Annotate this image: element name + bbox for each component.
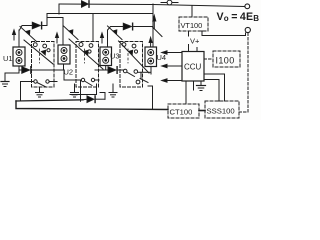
wire to rail B: [148, 86, 153, 110]
wire CT100-SSS100: [199, 110, 205, 112]
contact K1b: [43, 44, 47, 48]
relay box K2: [76, 42, 99, 88]
contact K2b: [89, 44, 93, 48]
battery B3: [100, 47, 112, 66]
svg-text:I100: I100: [216, 56, 235, 66]
wire CCU bottom 1: [185, 81, 187, 104]
contact row unit1: [21, 80, 58, 101]
terminal +output: [245, 4, 250, 9]
diode D3: [108, 23, 153, 30]
battery U3 wire: [107, 30, 109, 47]
wire VT100 to terminal: [202, 31, 246, 36]
current arrow A3: [101, 33, 104, 43]
diode D5: [19, 64, 64, 80]
current arrow A6: [149, 38, 152, 48]
wire B4 negative: [138, 67, 151, 79]
current arrow A2: [56, 33, 59, 43]
wire VT100 to CCU: [188, 31, 190, 36]
switch arm S1: [20, 27, 37, 42]
relay box K3: [120, 42, 143, 88]
wire B1 negative: [5, 66, 19, 81]
block SSS100: [205, 101, 239, 118]
contact row unit3: [123, 69, 137, 76]
control arrow 1: [162, 51, 182, 54]
diode D1: [82, 1, 90, 7]
diode D2: [20, 22, 48, 30]
current arrow A1: [13, 30, 16, 40]
contact K2a: [79, 43, 83, 47]
arm K3c: [119, 41, 150, 73]
contact K3a: [122, 43, 126, 47]
block CT100: [168, 104, 199, 118]
battery U1 wire: [18, 30, 20, 47]
svg-text:U4: U4: [157, 53, 167, 62]
battery B1: [13, 47, 25, 66]
wire riser x63: [62, 18, 64, 46]
arm K2c: [69, 39, 103, 69]
svg-text:V+: V+: [190, 37, 200, 46]
block I100: [213, 51, 240, 67]
contact row unit2: [65, 78, 99, 101]
linkage K3d: [127, 49, 129, 63]
contact K3b: [132, 44, 136, 48]
diode D6: [95, 66, 123, 74]
switch arm S4: [153, 27, 163, 37]
fuse F1: [161, 0, 178, 5]
relay box K1: [32, 42, 55, 88]
wire top bus2: [47, 13, 153, 15]
contact K1a: [33, 43, 37, 47]
wire drop x93: [92, 14, 94, 42]
wire CCU right 2: [204, 80, 219, 102]
linkage K2d: [84, 49, 86, 63]
svg-text:U1: U1: [3, 54, 13, 63]
ground G5: [197, 81, 206, 91]
wire sense dashed: [239, 33, 248, 112]
ground G4: [109, 84, 117, 97]
switch arm S3: [108, 26, 123, 40]
battery B4: [145, 47, 157, 67]
wire CCU right 1: [204, 74, 225, 101]
arm K1c: [24, 40, 53, 64]
wire bus1 drop: [58, 4, 60, 14]
wire y93: [70, 84, 97, 95]
svg-text:SSS100: SSS100: [207, 107, 235, 116]
wire link y17.5: [47, 17, 63, 19]
bottom rail A: [16, 100, 83, 101]
wire drop x47: [46, 14, 48, 26]
control arrow 2: [162, 64, 182, 67]
svg-text:U2: U2: [64, 68, 74, 77]
diode D4: [83, 93, 105, 103]
linkage K1d: [39, 49, 41, 63]
wire CCU to I100: [204, 58, 213, 60]
ground G1: [1, 82, 9, 87]
arm K4c: [140, 79, 148, 83]
svg-text:Vo = 4EB: Vo = 4EB: [217, 11, 260, 23]
terminal -output: [245, 27, 250, 32]
switch arm S2: [64, 26, 79, 40]
current arrow A5: [153, 16, 156, 29]
battery B2: [58, 45, 70, 64]
svg-text:VT100: VT100: [181, 21, 203, 30]
svg-text:CT100: CT100: [170, 108, 193, 117]
ground G2: [36, 87, 44, 97]
ground G3: [71, 84, 79, 97]
block VT100: [179, 17, 208, 31]
block CCU: [182, 52, 204, 82]
wire VT100 top: [191, 6, 193, 18]
bottom rail B: [16, 101, 168, 110]
svg-text:U3: U3: [110, 52, 120, 61]
wire CCU top stub: [196, 48, 198, 52]
wire CCU bottom 2: [193, 81, 195, 90]
svg-text:CCU: CCU: [184, 63, 202, 72]
control arrow 3: [162, 79, 182, 82]
wire riser x153: [152, 4, 154, 47]
wire top bus1: [59, 4, 245, 7]
contact K4a: [136, 80, 140, 84]
